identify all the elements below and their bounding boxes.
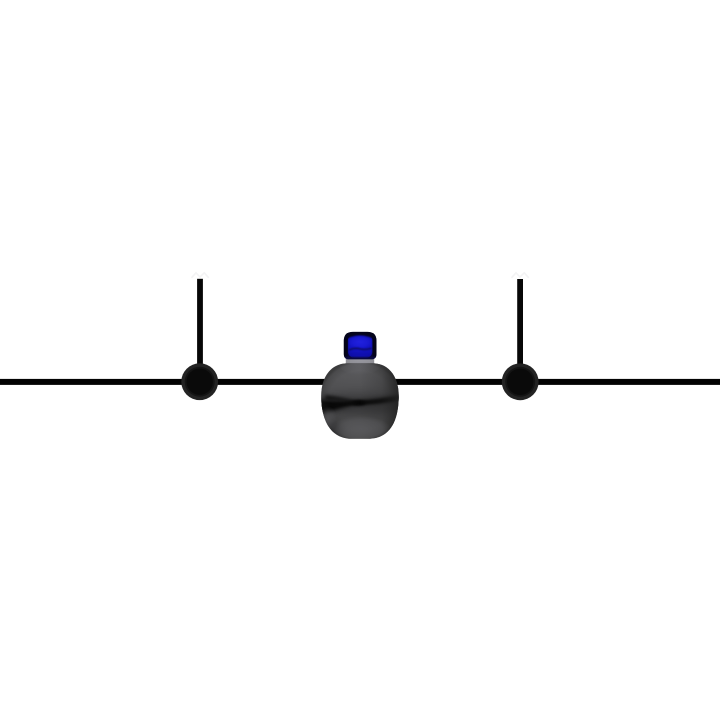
wire: right vertical stub [517,279,523,383]
mustache arc [350,348,372,349]
dark wavy band: crossing knot [352,400,366,405]
junction dot J2 (right) [502,363,539,400]
bottom-left corner dark [319,420,343,440]
wire: left vertical stub [197,279,203,383]
faint spark marks above left stub [192,273,209,278]
dark wavy band: upper-left fold streak [325,395,357,404]
top light under neck [339,353,381,375]
lower-left light patch [319,406,337,432]
neck collar between cap and body [346,356,374,368]
broad top sheen [322,360,394,388]
dome highlight [348,336,373,349]
bottom darker strip [344,357,377,359]
right flange [373,340,377,356]
dark wavy band: soft halo [312,394,408,414]
junction dot J1 (left) [181,363,218,400]
right edge darkening [360,363,399,439]
indicator cap (blue) [344,332,377,359]
lower pillow shade [347,352,373,358]
wire: main horizontal bus [0,379,720,385]
faint spark marks above right stub [512,273,529,278]
dark wavy band: core line [315,397,405,406]
top dome shadow [344,332,377,341]
left flange [344,340,348,356]
blue pillow [348,334,373,358]
component body (gray sphere) [312,353,408,442]
bottom center light [331,416,391,442]
dark wavy band: main streak [314,395,405,418]
perimeter vignette [319,361,401,441]
